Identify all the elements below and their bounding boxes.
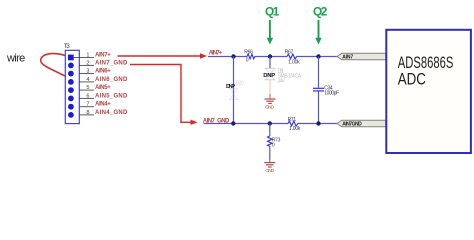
capacitor C34 body <box>313 88 324 91</box>
port tag AIN7 <box>337 53 386 60</box>
wire D21 to ground <box>269 80 271 99</box>
ground stem under R73 <box>269 160 271 163</box>
junction at C34 top <box>316 54 320 58</box>
svg-text:GND: GND <box>265 105 274 111</box>
connector pin 3 pad <box>68 71 74 77</box>
pin 1 lead wire <box>74 56 94 58</box>
svg-text:wire: wire <box>6 53 25 65</box>
svg-text:AIN5_GND: AIN5_GND <box>95 93 128 99</box>
svg-text:1000pF: 1000pF <box>324 91 339 97</box>
svg-text:AIN6+: AIN6+ <box>95 69 111 75</box>
connector pin 6 pad <box>68 96 74 102</box>
wire AIN7_GND bottom segment <box>204 123 338 125</box>
pin 6 lead wire <box>79 97 94 99</box>
wire AIN7+ top segment <box>208 56 337 58</box>
svg-text:1.00k: 1.00k <box>289 126 301 132</box>
connector pin 1 pad (square) <box>68 55 74 61</box>
svg-text:AIN4+: AIN4+ <box>95 102 111 108</box>
annotation Q2 arrow <box>315 20 321 45</box>
junction at D21 top <box>268 54 272 58</box>
svg-text:8: 8 <box>86 110 89 116</box>
pin 7 net name AIN4+ <box>95 102 111 108</box>
svg-text:0: 0 <box>272 142 275 148</box>
svg-text:2: 2 <box>86 60 89 66</box>
TVS diode D20 faint symbol (DNP) <box>229 89 238 100</box>
svg-text:AIN5+: AIN5+ <box>95 85 111 91</box>
pin 5 net name AIN5+ <box>95 85 111 91</box>
annotation Q1 arrow <box>267 20 273 45</box>
resistor R73 value 0 <box>272 142 275 148</box>
pin 2 lead wire <box>79 64 94 66</box>
wire R73 to ground <box>269 146 271 159</box>
D21 DNP marker <box>263 73 275 79</box>
connector pin 4 pad <box>68 79 74 85</box>
D21 faint value SMBJ24CA <box>278 74 302 80</box>
resistor R73 body (vertical) <box>268 136 273 147</box>
svg-text:Q2: Q2 <box>313 4 328 18</box>
D20 faint designator <box>236 81 244 87</box>
pin number 1 <box>86 52 89 58</box>
svg-text:7: 7 <box>86 102 89 108</box>
svg-text:R66: R66 <box>244 49 253 55</box>
annotation red loop pointer <box>41 54 70 77</box>
svg-text:ADC: ADC <box>398 71 426 89</box>
annotation red arrow pin2 to AIN7_GND net <box>130 65 198 126</box>
resistor R66 body <box>247 54 255 59</box>
ground label GND under D21 <box>265 105 274 111</box>
pin 1 net name AIN7+ <box>95 52 111 58</box>
pin 2 net name AIN7_GND <box>95 60 128 66</box>
pin number 7 <box>86 102 89 108</box>
pin 8 net name AIN4_GND <box>95 110 128 116</box>
svg-text:5: 5 <box>86 85 89 91</box>
junction at C34 bottom <box>316 121 320 125</box>
svg-text:AIN7+: AIN7+ <box>95 52 111 58</box>
resistor R66 value 0 <box>246 58 249 64</box>
ground symbol under R73 <box>264 163 275 167</box>
pin 3 lead wire <box>79 73 94 75</box>
pin 8 lead wire <box>79 114 94 116</box>
resistor R66 designator <box>244 49 253 55</box>
svg-text:DNP: DNP <box>226 84 235 90</box>
svg-text:R67: R67 <box>285 49 294 55</box>
D20 DNP marker <box>226 84 235 90</box>
connector pin 2 pad <box>68 63 74 69</box>
connector pin 7 pad <box>68 104 74 110</box>
wire C34 branch bottom <box>318 92 320 124</box>
pin number 4 <box>86 77 89 83</box>
capacitor C34 designator <box>324 86 333 92</box>
svg-text:AIN7_GND: AIN7_GND <box>95 60 128 66</box>
connector pin 5 pad <box>68 87 74 93</box>
svg-text:4: 4 <box>86 77 89 83</box>
connector pin 8 pad <box>68 112 74 118</box>
annotation Q1 label <box>265 4 280 18</box>
svg-text:DNP: DNP <box>263 73 275 79</box>
svg-text:0: 0 <box>246 58 249 64</box>
svg-text:R71: R71 <box>288 117 297 123</box>
svg-text:AIN7GND: AIN7GND <box>342 122 362 128</box>
pin 3 net name AIN6+ <box>95 69 111 75</box>
resistor R67 value 1.00k <box>288 60 300 66</box>
pin number 3 <box>86 69 89 75</box>
resistor R71 body <box>288 121 298 126</box>
pin number 6 <box>86 93 89 99</box>
resistor R71 value 1.00k <box>289 126 301 132</box>
wire R73 branch top <box>269 124 271 136</box>
annotation text "wire" <box>6 53 25 65</box>
ground label GND under R73 <box>265 168 274 174</box>
pin 6 net name AIN5_GND <box>95 93 128 99</box>
ground symbol under D21 <box>265 99 276 103</box>
resistor R71 designator <box>288 117 297 123</box>
ADC block ADS8686S <box>386 30 471 153</box>
wire D20 branch vertical <box>233 57 235 124</box>
capacitor C34 value 1000pF <box>324 91 339 97</box>
D21 faint value 24V <box>278 78 286 84</box>
wire D21 branch top <box>269 57 271 69</box>
connector T3 body <box>65 50 79 123</box>
resistor R67 designator <box>285 49 294 55</box>
svg-text:GND: GND <box>265 168 274 174</box>
svg-text:D20: D20 <box>236 81 244 87</box>
TVS diode D21 faint symbol (DNP) <box>265 68 276 80</box>
annotation Q2 label <box>313 4 328 18</box>
pin number 5 <box>86 85 89 91</box>
svg-text:24V: 24V <box>278 78 286 84</box>
svg-text:1.00k: 1.00k <box>288 60 300 66</box>
pin 4 lead wire <box>79 81 94 83</box>
pin 5 lead wire <box>79 89 94 91</box>
svg-text:6: 6 <box>86 93 89 99</box>
resistor R67 body <box>287 54 297 59</box>
pin 7 lead wire <box>79 106 94 108</box>
annotation red arrow pin1 to AIN7+ net <box>118 53 208 58</box>
pin 4 net name AIN6_GND <box>95 77 128 83</box>
D21 faint designator <box>278 69 284 75</box>
pin number 8 <box>86 110 89 116</box>
svg-text:AIN6_GND: AIN6_GND <box>95 77 128 83</box>
junction at D20 top <box>231 54 235 58</box>
net label AIN7+ <box>209 51 223 57</box>
svg-text:T3: T3 <box>64 43 70 50</box>
svg-text:Q1: Q1 <box>265 4 280 18</box>
svg-text:ADS8686S: ADS8686S <box>398 54 454 72</box>
net label AIN7_GND <box>203 118 230 124</box>
pin number 2 <box>86 60 89 66</box>
svg-text:3: 3 <box>86 69 89 75</box>
port tag AIN7GND <box>337 120 386 127</box>
svg-text:AIN7+: AIN7+ <box>209 51 223 57</box>
svg-text:AIN7: AIN7 <box>342 55 353 61</box>
junction at D20 bottom <box>231 121 235 125</box>
resistor R73 designator <box>272 138 281 144</box>
wire C34 branch top <box>318 57 320 88</box>
junction at R73 top <box>268 121 272 125</box>
connector T3 designator <box>64 43 70 50</box>
svg-text:1: 1 <box>86 52 89 58</box>
svg-text:AIN4_GND: AIN4_GND <box>95 110 128 116</box>
